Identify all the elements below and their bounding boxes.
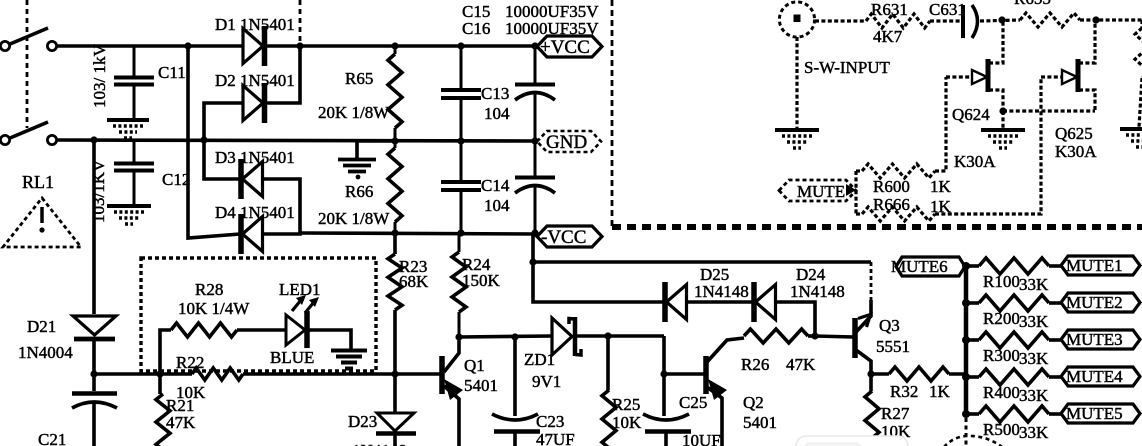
resistor R25 10K xyxy=(606,336,610,390)
FET Q625 K30A xyxy=(1041,75,1062,78)
svg-text:R500: R500 xyxy=(983,420,1020,439)
svg-text:C16: C16 xyxy=(462,19,490,38)
svg-text:R655: R655 xyxy=(1014,0,1051,8)
capacitor C16 xyxy=(534,141,537,176)
wire: to Q2 base/C25 xyxy=(662,336,666,416)
resistor R666 1K xyxy=(856,212,862,215)
resistor R300 33K xyxy=(966,338,979,342)
svg-text:MUTE3: MUTE3 xyxy=(1066,330,1123,349)
wire: D3/D4 anode vertical xyxy=(262,179,300,234)
ground (C11, dotted style) xyxy=(107,118,149,122)
resistor R200 33K xyxy=(966,301,979,305)
svg-text:-VCC: -VCC xyxy=(541,227,586,248)
svg-text:20K 1/8W: 20K 1/8W xyxy=(318,103,390,122)
switch S1 (relay contact top) xyxy=(0,41,9,50)
svg-text:GND: GND xyxy=(546,132,587,153)
ground (C12, dotted style) xyxy=(107,204,151,208)
svg-text:+VCC: +VCC xyxy=(540,37,590,58)
svg-text:68K: 68K xyxy=(399,272,429,291)
svg-text:MUTE4: MUTE4 xyxy=(1066,367,1123,386)
capacitor C13 104 xyxy=(460,46,463,88)
svg-text:C23: C23 xyxy=(536,412,564,431)
dashed arc bottom xyxy=(944,436,1002,446)
resistor R600 1K xyxy=(856,169,862,172)
node xyxy=(962,410,970,418)
svg-text:D2 1N5401: D2 1N5401 xyxy=(215,71,295,90)
svg-text:47UF: 47UF xyxy=(536,430,575,446)
svg-text:RL1: RL1 xyxy=(22,172,54,192)
wire: D1/D2 cathode vertical xyxy=(265,46,300,103)
svg-text:R65: R65 xyxy=(345,69,373,88)
svg-text:R666: R666 xyxy=(873,195,910,214)
capacitor C12 xyxy=(133,141,136,162)
node xyxy=(511,333,518,340)
diode D4 1N5401 xyxy=(238,214,244,254)
node xyxy=(296,42,303,49)
node xyxy=(999,107,1006,114)
svg-text:Q624: Q624 xyxy=(952,105,990,124)
diode D23 xyxy=(377,413,414,431)
svg-text:1K: 1K xyxy=(930,177,952,196)
svg-text:C14: C14 xyxy=(481,176,510,195)
node xyxy=(90,370,97,377)
resistor R23 68K xyxy=(393,233,397,254)
capacitor C21 xyxy=(92,374,96,391)
svg-text:47K: 47K xyxy=(166,413,196,432)
svg-text:C13: C13 xyxy=(481,84,509,103)
flag MUTE (dashed) xyxy=(779,180,856,201)
wire: ZD1 row y=336 xyxy=(459,336,552,337)
svg-text:104: 104 xyxy=(484,104,510,123)
svg-text:C25: C25 xyxy=(679,393,707,412)
capacitor C15 xyxy=(534,46,537,83)
diode D3 1N5401 xyxy=(238,159,244,199)
svg-text:1N4004: 1N4004 xyxy=(18,343,73,362)
svg-text:D3 1N5401: D3 1N5401 xyxy=(215,148,295,167)
wire to D23 xyxy=(393,374,397,413)
wire: -V rail y=233 xyxy=(300,233,536,234)
zener ZD1 9V1 xyxy=(552,318,572,355)
svg-text:MUTE2: MUTE2 xyxy=(1066,293,1123,312)
svg-text:Q625: Q625 xyxy=(1055,124,1093,143)
svg-text:9V1: 9V1 xyxy=(532,372,561,391)
svg-text:Q2: Q2 xyxy=(743,393,764,412)
svg-text:10K: 10K xyxy=(612,413,642,432)
node Q1 collector xyxy=(455,333,462,340)
svg-text:MUTE5: MUTE5 xyxy=(1066,404,1123,423)
svg-text:5551: 5551 xyxy=(876,337,910,356)
capacitor C631 xyxy=(961,5,965,38)
dashed box (LED indicator) xyxy=(141,258,376,371)
node xyxy=(962,336,970,344)
node xyxy=(962,373,970,381)
svg-text:R300: R300 xyxy=(983,346,1020,365)
resistor R28 10K 1/4W xyxy=(160,330,171,374)
wire: node to Q3 base xyxy=(815,336,853,337)
wire: connector stem xyxy=(795,37,798,128)
wire xyxy=(980,20,1020,21)
wire: D24 to R26/Q3 node xyxy=(775,302,815,336)
flag -VCC xyxy=(537,226,602,247)
resistor R65 20K 1/8W xyxy=(388,54,402,128)
svg-text:C12: C12 xyxy=(162,170,190,189)
ground (right edge, dotted) xyxy=(1120,127,1142,131)
svg-text:47K: 47K xyxy=(786,355,816,374)
svg-text:103/ 1kV: 103/ 1kV xyxy=(90,44,109,108)
wire: neutral row y=141 xyxy=(57,140,536,141)
wire xyxy=(930,19,961,22)
svg-text:1N4148: 1N4148 xyxy=(694,282,749,301)
FET Q624 K30A xyxy=(946,75,972,78)
svg-text:5401: 5401 xyxy=(743,413,777,432)
resistor R631 4K7 xyxy=(866,14,930,28)
node R66 bottom xyxy=(391,229,398,236)
wire LED cathode to ground xyxy=(309,330,351,349)
node xyxy=(962,299,970,307)
svg-text:150K: 150K xyxy=(462,271,501,290)
node xyxy=(529,258,536,265)
resistor R32 1K xyxy=(871,372,889,376)
diode D2 1N5401 xyxy=(243,86,263,121)
svg-text:R631: R631 xyxy=(871,0,908,19)
svg-text:103/1KV: 103/1KV xyxy=(89,159,108,223)
resistor R400 33K xyxy=(966,375,979,379)
wire: mute ladder xyxy=(854,171,857,214)
capacitor C14 104 xyxy=(460,141,463,180)
resistor R66 20K 1/8W xyxy=(388,148,402,222)
svg-text:33K: 33K xyxy=(1019,275,1049,294)
node xyxy=(90,136,97,143)
diode D24 1N4148 xyxy=(751,282,757,322)
svg-text:R66: R66 xyxy=(345,182,373,201)
relay RL1 symbol xyxy=(3,198,81,247)
wire xyxy=(1080,18,1142,21)
diode D25 1N4148 xyxy=(662,282,668,322)
flag MUTE2 xyxy=(1061,293,1140,312)
node xyxy=(1092,16,1099,23)
resistor R21 47K xyxy=(158,374,162,394)
svg-text:R400: R400 xyxy=(983,383,1020,402)
svg-text:R600: R600 xyxy=(873,177,910,196)
svg-text:D23: D23 xyxy=(348,412,377,431)
capacitor C11 xyxy=(133,46,136,76)
dashed feed from top edge xyxy=(299,0,302,44)
ground (mid rail) xyxy=(357,141,393,158)
node xyxy=(604,332,611,339)
svg-text:ZD1: ZD1 xyxy=(524,350,555,369)
svg-text:C631: C631 xyxy=(929,0,966,19)
svg-text:C21: C21 xyxy=(38,430,66,446)
svg-text:D21: D21 xyxy=(27,317,56,336)
svg-text:BLUE: BLUE xyxy=(270,348,314,367)
wire xyxy=(686,300,754,304)
svg-text:10K 1/4W: 10K 1/4W xyxy=(178,299,250,318)
flag GND xyxy=(537,131,601,152)
resistor R26 47K xyxy=(744,329,808,343)
capacitor C23 47UF xyxy=(513,337,517,416)
wire: connector to R631 xyxy=(815,19,866,22)
node xyxy=(962,262,970,270)
flag MUTE6 xyxy=(896,257,965,276)
svg-text:1K: 1K xyxy=(929,382,951,401)
svg-text:1K: 1K xyxy=(930,197,952,216)
node R65/R66 mid xyxy=(391,137,398,144)
wire: top rail y=46 xyxy=(57,44,243,48)
svg-text:MUTE1: MUTE1 xyxy=(1066,256,1123,275)
svg-text:R22: R22 xyxy=(176,353,204,372)
wire: base row y=374 xyxy=(94,372,192,376)
svg-text:33K: 33K xyxy=(1019,349,1049,368)
transistor Q3 5551 xyxy=(852,318,858,358)
faint watermark box xyxy=(796,436,908,446)
flag +VCC xyxy=(537,36,602,57)
ground (input, dotted) xyxy=(775,128,819,132)
svg-text:5401: 5401 xyxy=(464,376,498,395)
svg-text:LED1: LED1 xyxy=(279,280,321,299)
node R65 top xyxy=(391,42,398,49)
wire: source row xyxy=(1003,109,1095,112)
svg-text:MUTE6: MUTE6 xyxy=(891,257,948,276)
relay actuator dashed link xyxy=(26,0,29,128)
svg-text:K30A: K30A xyxy=(1055,142,1097,161)
LED arrows xyxy=(292,300,301,311)
svg-text:1N4148: 1N4148 xyxy=(352,441,407,446)
wire: D2 anode / D3 cathode vertical xyxy=(204,103,243,179)
svg-text:MUTE: MUTE xyxy=(797,182,845,201)
diode D21 1N4004 xyxy=(73,316,116,335)
node xyxy=(867,370,874,377)
wire: AC1 vertical to D4 cathode xyxy=(188,46,240,238)
flag MUTE4 xyxy=(1061,367,1140,386)
resistor R100 33K xyxy=(966,264,979,268)
svg-text:R200: R200 xyxy=(983,309,1020,328)
ground (Q624, dotted) xyxy=(1001,111,1004,128)
diode D1 1N5401 xyxy=(243,29,263,64)
resistor R24 150K xyxy=(458,233,461,252)
nodes C15 xyxy=(531,42,538,49)
svg-text:20K 1/8W: 20K 1/8W xyxy=(318,209,390,228)
node xyxy=(998,16,1005,23)
resistor R27 10K xyxy=(865,391,879,446)
ground (LED) xyxy=(331,349,367,353)
svg-text:S-W-INPUT: S-W-INPUT xyxy=(804,58,891,77)
svg-text:4K7: 4K7 xyxy=(873,27,903,46)
svg-text:R28: R28 xyxy=(195,280,223,299)
wire: mute feed to Q3 xyxy=(533,260,871,264)
dashed box border (sub-woofer input section) xyxy=(611,0,614,227)
switch S2 (relay contact bottom) xyxy=(0,135,9,144)
svg-text:K30A: K30A xyxy=(954,152,996,171)
node: AC1 junction xyxy=(184,42,191,49)
svg-text:33K: 33K xyxy=(1019,423,1049,442)
svg-text:Q3: Q3 xyxy=(879,316,900,335)
svg-text:C11: C11 xyxy=(158,63,186,82)
svg-text:Q1: Q1 xyxy=(464,356,485,375)
svg-text:D4 1N5401: D4 1N5401 xyxy=(215,203,295,222)
bus vertical xyxy=(964,266,969,416)
resistor right edge xyxy=(1140,20,1142,28)
resistor R500 33K xyxy=(966,412,979,416)
resistor R22 10K (series) xyxy=(192,368,243,380)
node xyxy=(660,370,667,377)
node xyxy=(811,332,818,339)
transistor Q2 5401 xyxy=(703,356,709,394)
wire: -VCC stem xyxy=(533,235,664,302)
LED1 BLUE xyxy=(286,315,305,345)
svg-text:104: 104 xyxy=(484,196,510,215)
transistor Q1 5401 xyxy=(439,356,445,394)
svg-text:R100: R100 xyxy=(983,272,1020,291)
svg-text:R32: R32 xyxy=(890,382,918,401)
svg-text:10UF: 10UF xyxy=(682,431,721,446)
svg-text:33K: 33K xyxy=(1019,386,1049,405)
svg-text:D1 1N5401: D1 1N5401 xyxy=(215,15,295,34)
connector S-W-INPUT xyxy=(779,2,814,37)
flag MUTE5 xyxy=(1061,404,1140,423)
resistor R655 xyxy=(1020,13,1080,27)
svg-text:R27: R27 xyxy=(881,404,910,423)
svg-text:1N4148: 1N4148 xyxy=(790,282,845,301)
flag MUTE1 xyxy=(1061,256,1140,275)
nodes C13/C14 xyxy=(457,42,464,49)
wire: D21 column xyxy=(92,140,96,314)
svg-text:33K: 33K xyxy=(1019,312,1049,331)
flag MUTE3 xyxy=(1061,330,1140,349)
capacitor C25 10UF xyxy=(643,414,689,420)
svg-text:R25: R25 xyxy=(612,395,640,414)
node: neutral junction xyxy=(200,136,207,143)
svg-text:R26: R26 xyxy=(741,355,769,374)
